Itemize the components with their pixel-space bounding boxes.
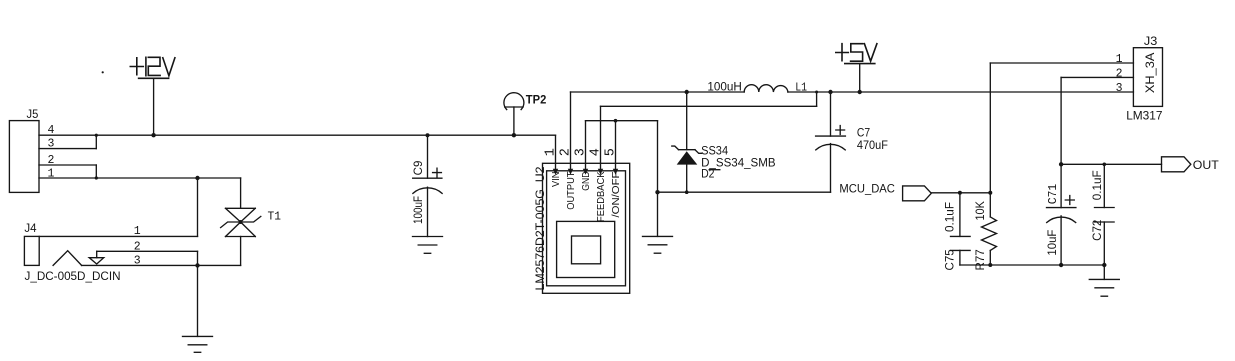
ground (C72)	[1089, 279, 1119, 296]
stray dot	[102, 71, 104, 73]
wire +5V stem	[859, 64, 861, 92]
svg-text:C9: C9	[413, 161, 425, 176]
svg-text:LM317: LM317	[1126, 109, 1162, 123]
TVS diode T1	[221, 178, 261, 265]
svg-text:J3: J3	[1144, 34, 1158, 48]
junction C9 top	[426, 133, 430, 137]
svg-text:C71: C71	[1047, 184, 1060, 205]
wire J5 pin3	[39, 135, 96, 148]
svg-text:GND: GND	[581, 172, 592, 191]
U2 pin 1 stub	[553, 135, 558, 175]
wire +12V stem	[153, 78, 155, 135]
U2 pin 2 stub	[568, 92, 573, 175]
svg-text:4: 4	[48, 124, 55, 137]
junction +5V	[858, 90, 862, 94]
svg-text:1: 1	[544, 148, 559, 156]
svg-text:0.1uF: 0.1uF	[1092, 170, 1104, 200]
junction +12V	[151, 133, 155, 137]
wire FEEDBACK	[601, 92, 817, 106]
svg-text:2: 2	[48, 154, 55, 167]
capacitor C75	[951, 193, 971, 265]
capacitor C72	[1095, 164, 1115, 265]
wire J3 pin2	[1061, 77, 1133, 164]
svg-text:MCU_DAC: MCU_DAC	[839, 181, 895, 195]
junction D2 top	[685, 90, 689, 94]
J4 center-pin chevron	[53, 251, 82, 266]
svg-text:1: 1	[48, 168, 55, 181]
connector J4	[24, 236, 39, 265]
wire U2 ground stem	[657, 192, 659, 236]
svg-text:OUTPUT: OUTPUT	[566, 172, 577, 210]
junction D2 bottom	[685, 190, 689, 194]
connector J3	[1133, 48, 1162, 107]
svg-text:3: 3	[48, 138, 55, 151]
wire bottom rail right	[960, 264, 1104, 266]
junction R27 top	[988, 191, 992, 195]
ground (J4)	[183, 336, 213, 352]
svg-text:0.1uF: 0.1uF	[944, 202, 956, 232]
regulator U2	[543, 163, 630, 293]
diode D2	[672, 92, 702, 192]
junction pin5	[614, 119, 618, 123]
svg-text:/ON/OFF: /ON/OFF	[611, 172, 622, 218]
wire J4 pin1	[39, 178, 197, 236]
net flag OUT	[1162, 157, 1191, 172]
junction C75 top	[958, 191, 962, 195]
svg-text:3: 3	[134, 255, 141, 268]
svg-text:3: 3	[1116, 82, 1123, 95]
svg-text:XH_3A: XH_3A	[1145, 52, 1157, 93]
svg-text:2: 2	[134, 241, 141, 254]
svg-text:J_DC-005D_DCIN: J_DC-005D_DCIN	[25, 269, 121, 283]
svg-text:2: 2	[559, 148, 574, 156]
svg-text:D2: D2	[701, 167, 715, 181]
wire +5V net	[788, 91, 1134, 93]
connector J5	[9, 121, 39, 193]
wire GND / ON-OFF	[586, 121, 658, 193]
svg-text:R77: R77	[975, 249, 987, 270]
capacitor C71	[1047, 164, 1076, 265]
svg-text:470uF: 470uF	[857, 138, 888, 152]
junction R27 bottom	[988, 263, 992, 267]
wire J4 pin3	[82, 264, 241, 266]
svg-text:1: 1	[1116, 53, 1123, 66]
svg-text:LM2576D2T-005G U2: LM2576D2T-005G U2	[533, 166, 547, 290]
junction J5 pin3/pin4	[95, 134, 98, 137]
net flag MCU_DAC	[903, 186, 932, 201]
junction C71 top	[1059, 162, 1063, 166]
junction C71 bottom	[1059, 263, 1063, 267]
capacitor C9	[413, 135, 442, 236]
wire OUT net	[1061, 163, 1161, 165]
svg-text:C72: C72	[1092, 220, 1104, 241]
wire ground stem (C72)	[1103, 265, 1105, 279]
svg-text:2: 2	[1116, 68, 1123, 81]
junction C72 top	[1103, 163, 1107, 167]
power symbol +12V	[130, 57, 175, 78]
svg-text:VIN: VIN	[551, 172, 562, 188]
U2 pin 5 stub	[613, 121, 618, 175]
U2 pin 3 stub	[583, 121, 588, 175]
resistor R77	[982, 193, 997, 265]
svg-text:10uF: 10uF	[1047, 230, 1059, 256]
svg-text:T1: T1	[268, 210, 282, 224]
svg-text:J5: J5	[27, 107, 39, 121]
svg-text:OUT: OUT	[1193, 158, 1219, 172]
U2 pin 4 stub	[598, 106, 603, 174]
junction rail left	[655, 190, 659, 194]
inductor L1	[744, 85, 788, 92]
svg-text:TP2: TP2	[526, 93, 547, 107]
wire J5 pin1 net	[39, 177, 241, 179]
junction TP2	[512, 133, 516, 137]
wire MCU_DAC	[931, 192, 990, 194]
ground (U2)	[643, 236, 673, 253]
power symbol +5V	[836, 44, 877, 64]
test point TP2	[504, 93, 524, 136]
svg-text:100uH: 100uH	[707, 79, 742, 93]
wire OUTPUT to inductor	[571, 91, 745, 93]
label D2	[701, 167, 720, 181]
wire J5 pin2	[39, 165, 96, 178]
wire J4 ground stem	[197, 265, 199, 336]
svg-text:10K: 10K	[975, 201, 987, 221]
svg-text:C75: C75	[944, 249, 956, 270]
junction feedback tap	[815, 91, 818, 94]
svg-text:J4: J4	[24, 221, 36, 235]
J4 switch arrow	[89, 251, 104, 264]
svg-text:3: 3	[574, 148, 589, 156]
wire ground rail	[658, 191, 831, 193]
svg-text:100uF: 100uF	[413, 196, 425, 224]
junction J4 pin2/pin3	[195, 263, 199, 267]
svg-text:4: 4	[589, 148, 604, 156]
svg-text:1: 1	[134, 225, 141, 238]
wire J5 pin4 / +12V net	[39, 134, 556, 136]
capacitor C7	[816, 92, 846, 192]
junction C72 bottom	[1102, 263, 1106, 267]
junction J4 pin1 to net	[195, 176, 199, 180]
junction J5 pin1/pin2	[95, 176, 98, 179]
ground (C9)	[413, 237, 443, 254]
svg-text:5: 5	[604, 148, 619, 156]
wire J3 pin1	[990, 63, 1133, 193]
junction C7 top	[828, 90, 832, 94]
svg-text:FEEDBACK: FEEDBACK	[596, 171, 607, 222]
wire J4 pin2	[97, 251, 198, 265]
